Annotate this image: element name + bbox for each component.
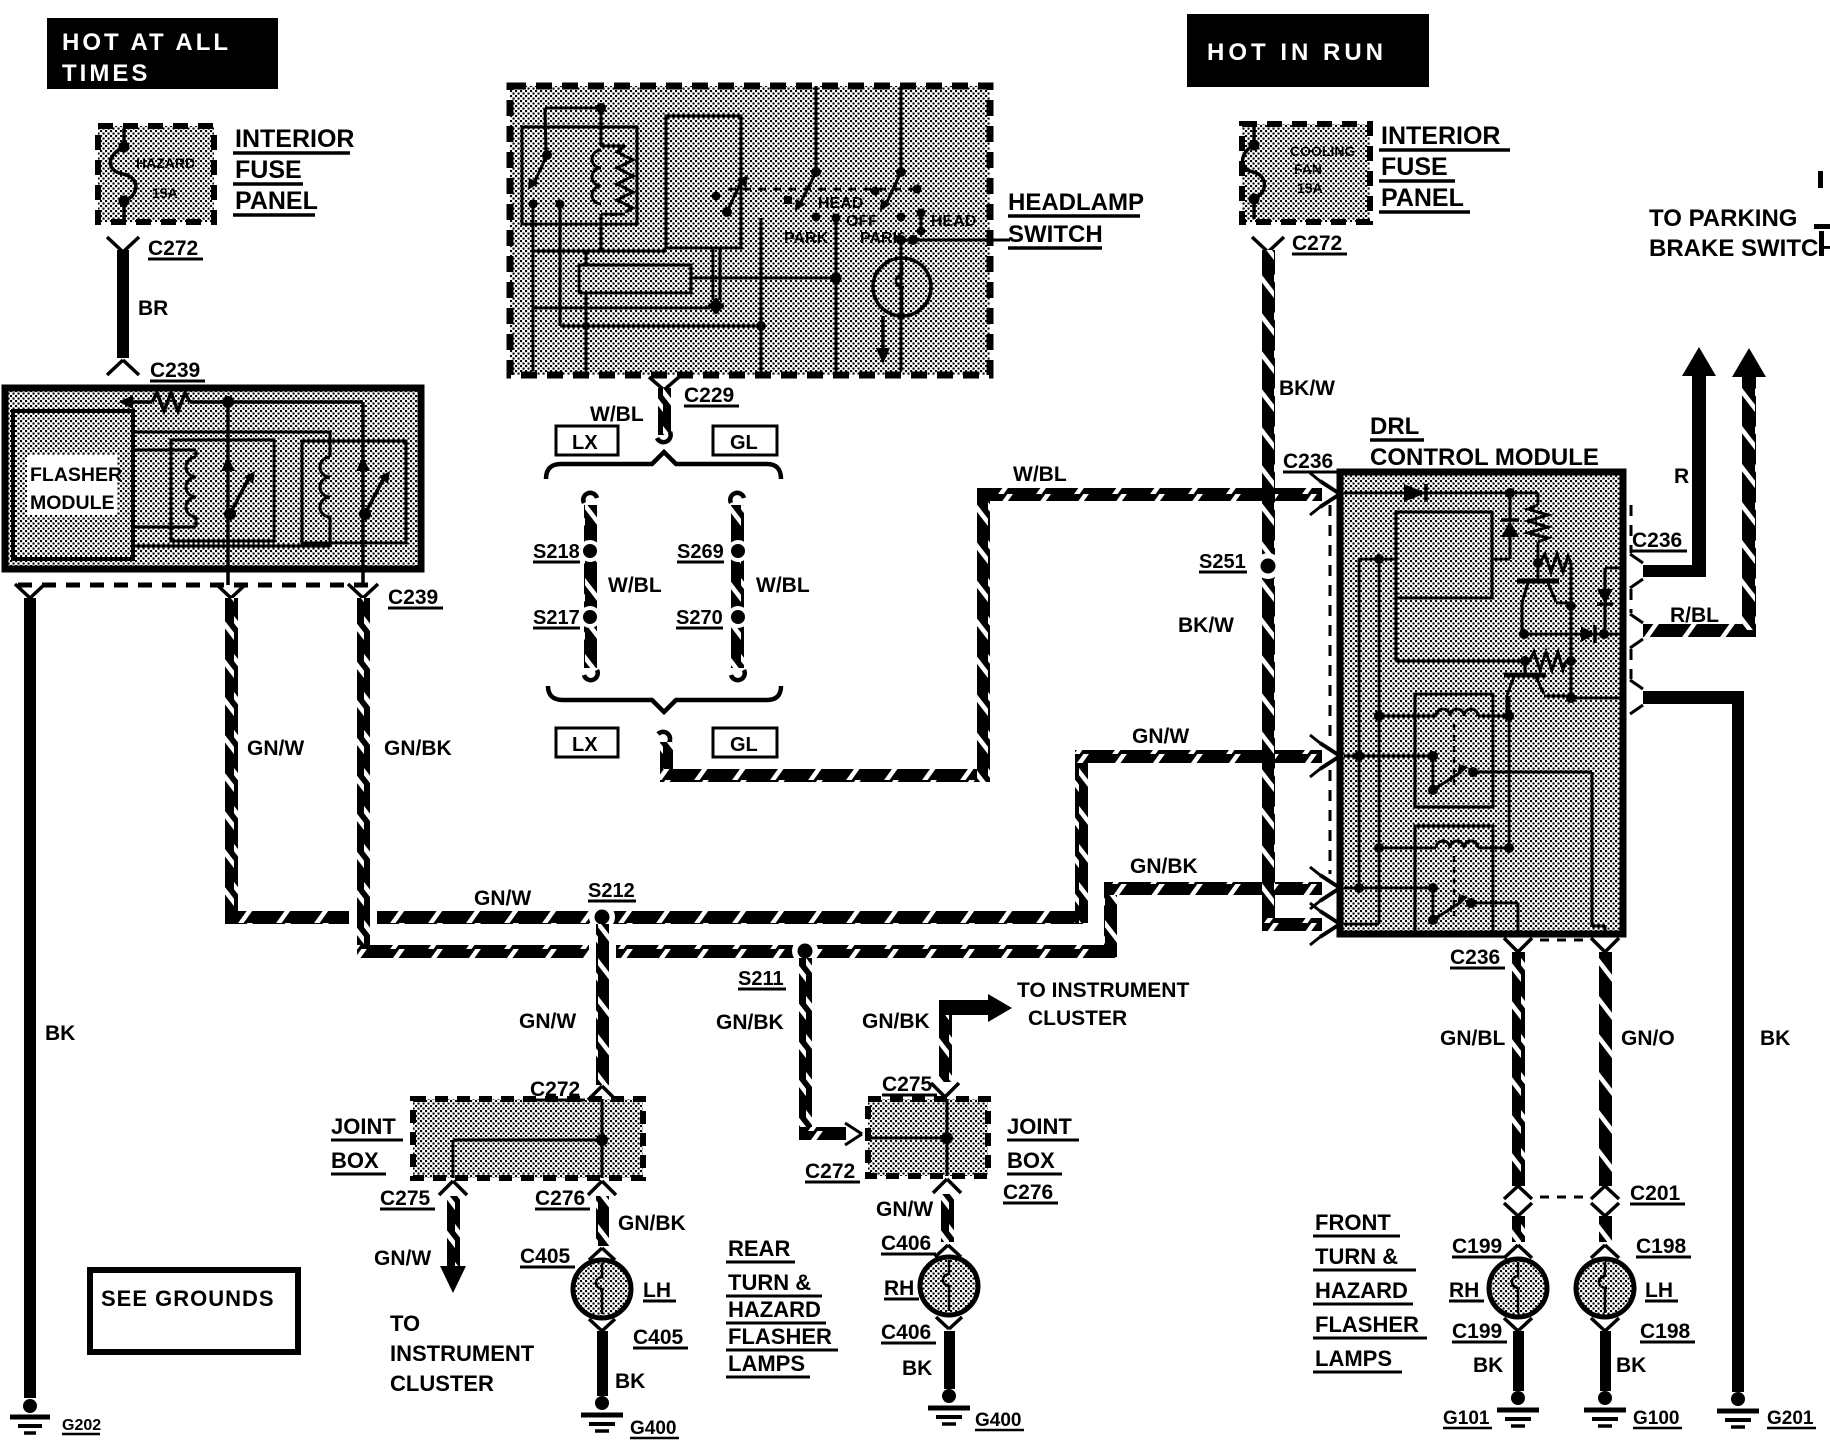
transistor Q2: [1504, 606, 1620, 716]
svg-text:GL: GL: [730, 734, 758, 756]
flasher top wire with resistor: [119, 393, 363, 411]
wire GN/BL lower + connector C199: [1452, 1216, 1532, 1258]
connector C275 (left): [380, 1181, 467, 1210]
box LX (top): [556, 426, 618, 455]
svg-text:FAN: FAN: [1294, 161, 1322, 177]
svg-text:C405: C405: [633, 1326, 684, 1349]
DRL control module box: [1340, 472, 1623, 934]
svg-text:CONTROL MODULE: CONTROL MODULE: [1370, 444, 1599, 471]
flasher module inner box: [13, 411, 133, 559]
headlamp relay coil and resistor: [592, 146, 633, 251]
svg-text:S218: S218: [533, 541, 580, 563]
module boundary dashed line left: [1329, 505, 1332, 874]
svg-text:C236: C236: [1450, 946, 1500, 969]
svg-text:LX: LX: [572, 734, 598, 756]
label TO INSTRUMENT CLUSTER (left): [390, 1311, 535, 1396]
wire GN/BL: [1440, 952, 1525, 1186]
wire vertical left (to GN/W): [226, 402, 230, 585]
relay K1 box: [1415, 694, 1493, 807]
wire GN/O lower + connector C198: [1591, 1216, 1691, 1258]
svg-text:C405: C405: [520, 1245, 571, 1268]
svg-text:GN/BK: GN/BK: [1130, 855, 1198, 878]
svg-text:LX: LX: [572, 432, 598, 454]
connector C198 lower: [1591, 1318, 1695, 1343]
svg-text:GN/W: GN/W: [876, 1198, 933, 1221]
svg-text:HAZARD: HAZARD: [1315, 1278, 1408, 1303]
ground G101: [1443, 1391, 1539, 1429]
relay A coil: [133, 450, 196, 527]
wire top feed: [545, 103, 606, 152]
svg-text:C275: C275: [882, 1073, 933, 1096]
svg-text:HEAD: HEAD: [931, 213, 976, 230]
splice S211: [738, 938, 818, 990]
svg-text:PANEL: PANEL: [235, 187, 318, 215]
svg-text:HEADLAMP: HEADLAMP: [1008, 189, 1144, 216]
connector C199 lower: [1452, 1318, 1532, 1343]
svg-text:C406: C406: [881, 1232, 931, 1255]
svg-text:FRONT: FRONT: [1315, 1210, 1391, 1235]
wire BK (RH front lamp): [1473, 1331, 1524, 1391]
row BK/W input: [1344, 923, 1379, 926]
connector C405 (upper): [520, 1245, 615, 1268]
row GN/BK input: [1344, 883, 1438, 918]
ground G400 (left): [581, 1396, 679, 1439]
splice S270: [676, 607, 745, 629]
svg-text:W/BL: W/BL: [1013, 463, 1067, 486]
resistor R1 vertical: [1528, 493, 1548, 568]
svg-text:R/BL: R/BL: [1670, 604, 1719, 627]
wiper arrow: [876, 316, 890, 364]
svg-text:BK: BK: [1760, 1027, 1790, 1050]
svg-text:C275: C275: [380, 1187, 431, 1210]
svg-text:TIMES: TIMES: [62, 60, 150, 87]
svg-text:PANEL: PANEL: [1381, 184, 1464, 212]
module left rails: [1359, 554, 1396, 924]
switch 3 HEAD OFF PARK: [784, 86, 878, 371]
svg-text:C199: C199: [1452, 1320, 1502, 1343]
panel bulb: [873, 258, 931, 316]
svg-text:FUSE: FUSE: [235, 156, 302, 184]
label REAR TURN & HAZARD FLASHER LAMPS: [726, 1236, 838, 1377]
connector C272 (into right joint box): [805, 1123, 862, 1183]
svg-text:15A: 15A: [152, 185, 178, 201]
zener diode Z1: [1492, 493, 1519, 559]
tall loop box: [666, 116, 741, 248]
svg-text:TO INSTRUMENT: TO INSTRUMENT: [1017, 979, 1189, 1002]
ground G202: [10, 1399, 101, 1434]
connector C239 (top of flasher module): [107, 359, 205, 382]
svg-text:COOLING: COOLING: [1290, 143, 1355, 159]
ground G201: [1717, 1392, 1816, 1429]
relay K2 box: [1415, 826, 1493, 933]
relay B box: [302, 441, 406, 543]
relay K2 coil: [1374, 841, 1514, 853]
joint box right: [868, 1099, 988, 1176]
svg-text:GN/BL: GN/BL: [1440, 1027, 1506, 1050]
svg-text:G101: G101: [1443, 1408, 1490, 1429]
svg-text:W/BL: W/BL: [756, 574, 810, 597]
svg-text:INSTRUMENT: INSTRUMENT: [390, 1341, 535, 1366]
svg-text:TURN &: TURN &: [1315, 1244, 1398, 1269]
svg-text:C239: C239: [388, 586, 438, 609]
relay A box: [171, 440, 274, 541]
lamp RH front: [1449, 1259, 1547, 1317]
relay A switch: [221, 457, 255, 520]
wire GN/BK arrow to instrument cluster: [862, 994, 1012, 1082]
svg-text:G400: G400: [630, 1418, 676, 1439]
svg-text:HOT AT ALL: HOT AT ALL: [62, 29, 231, 56]
svg-text:MODULE: MODULE: [30, 492, 115, 514]
joint box left: [413, 1099, 643, 1178]
headlamp switch box: [510, 86, 990, 375]
lamp LH front: [1576, 1259, 1678, 1317]
svg-text:RH: RH: [1449, 1279, 1479, 1302]
svg-text:LAMPS: LAMPS: [1315, 1346, 1392, 1371]
svg-text:LH: LH: [643, 1279, 671, 1302]
svg-text:C198: C198: [1640, 1320, 1691, 1343]
svg-text:BK/W: BK/W: [1178, 614, 1234, 637]
label TO INSTRUMENT CLUSTER (right): [1017, 979, 1189, 1030]
splice S217: [533, 607, 597, 629]
module inner box: [1396, 512, 1492, 598]
headlamp relay switch: [528, 150, 565, 209]
relay K2 switch: [1428, 894, 1518, 934]
svg-text:C276: C276: [535, 1187, 585, 1210]
svg-text:RH: RH: [884, 1277, 914, 1300]
svg-text:GN/W: GN/W: [519, 1010, 576, 1033]
module top rail with diode D1: [1344, 484, 1538, 502]
svg-text:BOX: BOX: [1007, 1148, 1055, 1173]
splice S212: [588, 880, 636, 930]
brace top: [546, 452, 781, 479]
wire GN/BK vertical from C239: [357, 598, 370, 957]
label INTERIOR FUSE PANEL (left): [233, 125, 354, 215]
wire BK/W vertical: [1178, 250, 1335, 931]
wire GN/BK (to LH rear lamp): [596, 1196, 686, 1246]
rheostat box: [579, 251, 842, 371]
resistor R3 horizontal: [1396, 652, 1576, 670]
svg-text:S212: S212: [588, 880, 635, 902]
svg-text:CLUSTER: CLUSTER: [390, 1371, 494, 1396]
splice S251: [1199, 551, 1281, 579]
wire W/BL ladder right: [727, 493, 749, 680]
svg-text:TO: TO: [390, 1311, 420, 1336]
wire GN/BK drop from S211: [716, 958, 846, 1140]
svg-text:R: R: [1674, 465, 1689, 488]
svg-text:C239: C239: [150, 359, 200, 382]
label HEADLAMP SWITCH: [1008, 189, 1144, 248]
svg-text:BR: BR: [138, 297, 168, 320]
svg-text:TO PARKING: TO PARKING: [1649, 205, 1797, 232]
svg-text:HEAD: HEAD: [818, 195, 863, 212]
wire BK (LH rear): [597, 1331, 645, 1396]
wire exits right y240: [896, 235, 1010, 371]
svg-text:FUSE: FUSE: [1381, 153, 1448, 181]
wire R/BL with arrow (to parking brake switch): [1630, 348, 1766, 648]
wire GN/O: [1599, 952, 1675, 1186]
svg-text:GN/BK: GN/BK: [384, 737, 452, 760]
svg-text:JOINT: JOINT: [331, 1114, 396, 1139]
svg-text:C201: C201: [1630, 1182, 1681, 1205]
header HOT IN RUN: [1187, 14, 1429, 87]
wire GN/W drop from S212: [519, 924, 616, 1085]
interior fuse panel box (right): [1242, 124, 1370, 222]
svg-text:SWITCH: SWITCH: [1008, 221, 1103, 248]
connector C272 (left fuse): [107, 237, 203, 260]
svg-text:GN/BK: GN/BK: [862, 1010, 930, 1033]
svg-text:C276: C276: [1003, 1181, 1053, 1204]
svg-text:BK: BK: [1473, 1354, 1503, 1377]
row GN/W input: [1344, 751, 1438, 788]
svg-text:LAMPS: LAMPS: [728, 1351, 805, 1376]
ground G400 (right): [928, 1389, 1024, 1431]
relay K1 coil: [1374, 696, 1514, 848]
svg-text:G100: G100: [1633, 1408, 1679, 1429]
wire BK (left main ground wire): [24, 598, 75, 1398]
svg-text:DRL: DRL: [1370, 413, 1419, 440]
svg-text:BRAKE SWITCH: BRAKE SWITCH: [1649, 235, 1830, 262]
svg-text:BOX: BOX: [331, 1148, 379, 1173]
wire GN/W bus horizontal: [225, 750, 1322, 935]
wire BR: [117, 250, 168, 358]
svg-text:TURN &: TURN &: [728, 1270, 811, 1295]
svg-text:C229: C229: [684, 384, 734, 407]
svg-text:S269: S269: [677, 541, 724, 563]
wire BK (LH front lamp): [1600, 1331, 1646, 1391]
svg-text:C272: C272: [148, 237, 198, 260]
svg-text:GN/W: GN/W: [1132, 725, 1189, 748]
SEE GROUNDS box: [90, 1270, 298, 1352]
svg-text:FLASHER: FLASHER: [728, 1324, 832, 1349]
svg-text:GL: GL: [730, 432, 758, 454]
splice S269: [677, 541, 745, 563]
wire GN/W (to RH rear lamp): [876, 1194, 954, 1242]
connector C405 (lower): [589, 1319, 688, 1349]
svg-text:GN/BK: GN/BK: [618, 1212, 686, 1235]
connector C272 (above left joint box): [530, 1078, 616, 1101]
svg-text:BK: BK: [45, 1022, 75, 1045]
wire drops from relay contacts: [532, 204, 535, 371]
wire BK (module to G201): [1630, 680, 1790, 1392]
wire W/BL ladder left: [579, 493, 601, 680]
connector C239 row (below flasher module): [15, 584, 443, 609]
svg-text:C199: C199: [1452, 1235, 1502, 1258]
svg-text:C272: C272: [805, 1160, 855, 1183]
wire R with arrow (to parking brake switch): [1630, 347, 1716, 588]
label DRL CONTROL MODULE: [1370, 413, 1599, 471]
label C236 (module right): [1632, 529, 1687, 552]
label C236 (module bottom): [1450, 946, 1505, 969]
diode D3 from R input: [1597, 568, 1620, 631]
label JOINT BOX (left): [331, 1114, 403, 1174]
connector C201: [1504, 1182, 1685, 1216]
header HOT AT ALL TIMES: [47, 18, 278, 89]
transistor Q1: [1517, 563, 1571, 631]
svg-text:S217: S217: [533, 607, 580, 629]
svg-text:BK: BK: [1616, 1354, 1646, 1377]
linkage dashed line: [728, 188, 918, 191]
edge tick marks right: [1814, 171, 1830, 256]
label JOINT BOX (right): [1007, 1114, 1079, 1174]
switch 2 (middle): [712, 175, 749, 217]
svg-text:C236: C236: [1283, 450, 1333, 473]
svg-text:BK: BK: [615, 1370, 645, 1393]
label TO PARKING BRAKE SWITCH: [1649, 205, 1830, 262]
svg-text:PARK: PARK: [784, 230, 829, 247]
svg-text:CLUSTER: CLUSTER: [1028, 1007, 1127, 1030]
svg-text:JOINT: JOINT: [1007, 1114, 1072, 1139]
svg-text:LH: LH: [1645, 1279, 1673, 1302]
svg-text:S270: S270: [676, 607, 723, 629]
svg-text:OFF: OFF: [846, 213, 878, 230]
diode D2 out to R/BL: [1519, 625, 1620, 643]
relay B switch: [356, 457, 390, 520]
lamp LH rear: [573, 1260, 676, 1318]
svg-text:HAZARD: HAZARD: [728, 1297, 821, 1322]
resistor R2 horizontal: [1540, 554, 1576, 611]
svg-text:W/BL: W/BL: [608, 574, 662, 597]
label FRONT TURN & HAZARD FLASHER LAMPS: [1313, 1210, 1427, 1372]
wire vertical right (to GN/BK): [361, 402, 365, 585]
svg-text:G400: G400: [975, 1410, 1021, 1431]
box GL (top): [713, 426, 777, 455]
wire BK (RH rear): [902, 1331, 955, 1389]
box LX (bottom): [556, 728, 618, 757]
svg-text:FLASHER: FLASHER: [1315, 1312, 1419, 1337]
svg-text:INTERIOR: INTERIOR: [235, 125, 354, 153]
connector C229: [649, 377, 739, 442]
svg-text:W/BL: W/BL: [590, 403, 644, 426]
fuse COOLING FAN 15A: [1243, 127, 1356, 219]
svg-text:C272: C272: [1292, 232, 1342, 255]
relay B coil: [133, 432, 330, 546]
connector C276 (right): [933, 1179, 1058, 1204]
svg-text:G202: G202: [62, 1417, 101, 1434]
wire horizontal y308: [534, 307, 710, 310]
connector C406 (upper): [881, 1232, 961, 1257]
connector C406 (lower): [881, 1317, 962, 1344]
module left connector pins: [1310, 473, 1340, 945]
svg-text:GN/W: GN/W: [247, 737, 304, 760]
svg-text:C236: C236: [1632, 529, 1682, 552]
wire W/BL run to DRL module: [658, 488, 1322, 782]
svg-text:C406: C406: [881, 1321, 931, 1344]
lamp RH rear: [884, 1257, 978, 1315]
connector C236 bottom pins: [1504, 938, 1619, 952]
interior fuse panel box (left): [98, 126, 214, 222]
box GL (bottom): [713, 728, 777, 757]
svg-text:GN/W: GN/W: [474, 887, 531, 910]
svg-text:S251: S251: [1199, 551, 1246, 573]
connector C276 (left): [535, 1181, 616, 1210]
flasher module box: [5, 388, 421, 569]
headlamp switch inner relay box: [522, 127, 637, 224]
connector C272 (right fuse): [1252, 232, 1347, 255]
svg-text:FLASHER: FLASHER: [30, 464, 122, 486]
module boundary dashed line right: [1630, 505, 1633, 679]
ground G100: [1584, 1391, 1682, 1429]
svg-text:HOT IN RUN: HOT IN RUN: [1207, 39, 1387, 66]
svg-text:GN/BK: GN/BK: [716, 1011, 784, 1034]
svg-text:S211: S211: [738, 968, 784, 990]
wire pair below tall box: [708, 248, 725, 314]
svg-text:REAR: REAR: [728, 1236, 790, 1261]
relay K1 switch: [1428, 764, 1605, 934]
svg-text:BK: BK: [902, 1357, 932, 1380]
wire GN/BK bus horizontal: [357, 882, 1322, 958]
fuse HAZARD 15A: [110, 129, 195, 220]
svg-text:G201: G201: [1767, 1408, 1814, 1429]
svg-text:C198: C198: [1636, 1235, 1687, 1258]
svg-text:SEE GROUNDS: SEE GROUNDS: [101, 1286, 275, 1311]
svg-text:INTERIOR: INTERIOR: [1381, 122, 1500, 150]
svg-text:GN/W: GN/W: [374, 1247, 431, 1270]
svg-text:GN/O: GN/O: [1621, 1027, 1675, 1050]
svg-text:BK/W: BK/W: [1279, 377, 1335, 400]
connector C275 (right, top of joint box): [882, 1073, 959, 1097]
wire GN/W arrow to instrument cluster: [374, 1196, 466, 1293]
switch 4 PARK HEAD: [860, 86, 976, 247]
wire horizontal y326: [560, 218, 766, 371]
svg-text:15A: 15A: [1297, 180, 1323, 196]
brace bottom: [548, 686, 781, 712]
svg-text:HAZARD: HAZARD: [136, 155, 195, 171]
splice S218: [533, 541, 597, 563]
label INTERIOR FUSE PANEL (right): [1379, 122, 1510, 212]
wire GN/W vertical from C239: [225, 598, 238, 923]
label C236 (module left): [1283, 450, 1338, 473]
